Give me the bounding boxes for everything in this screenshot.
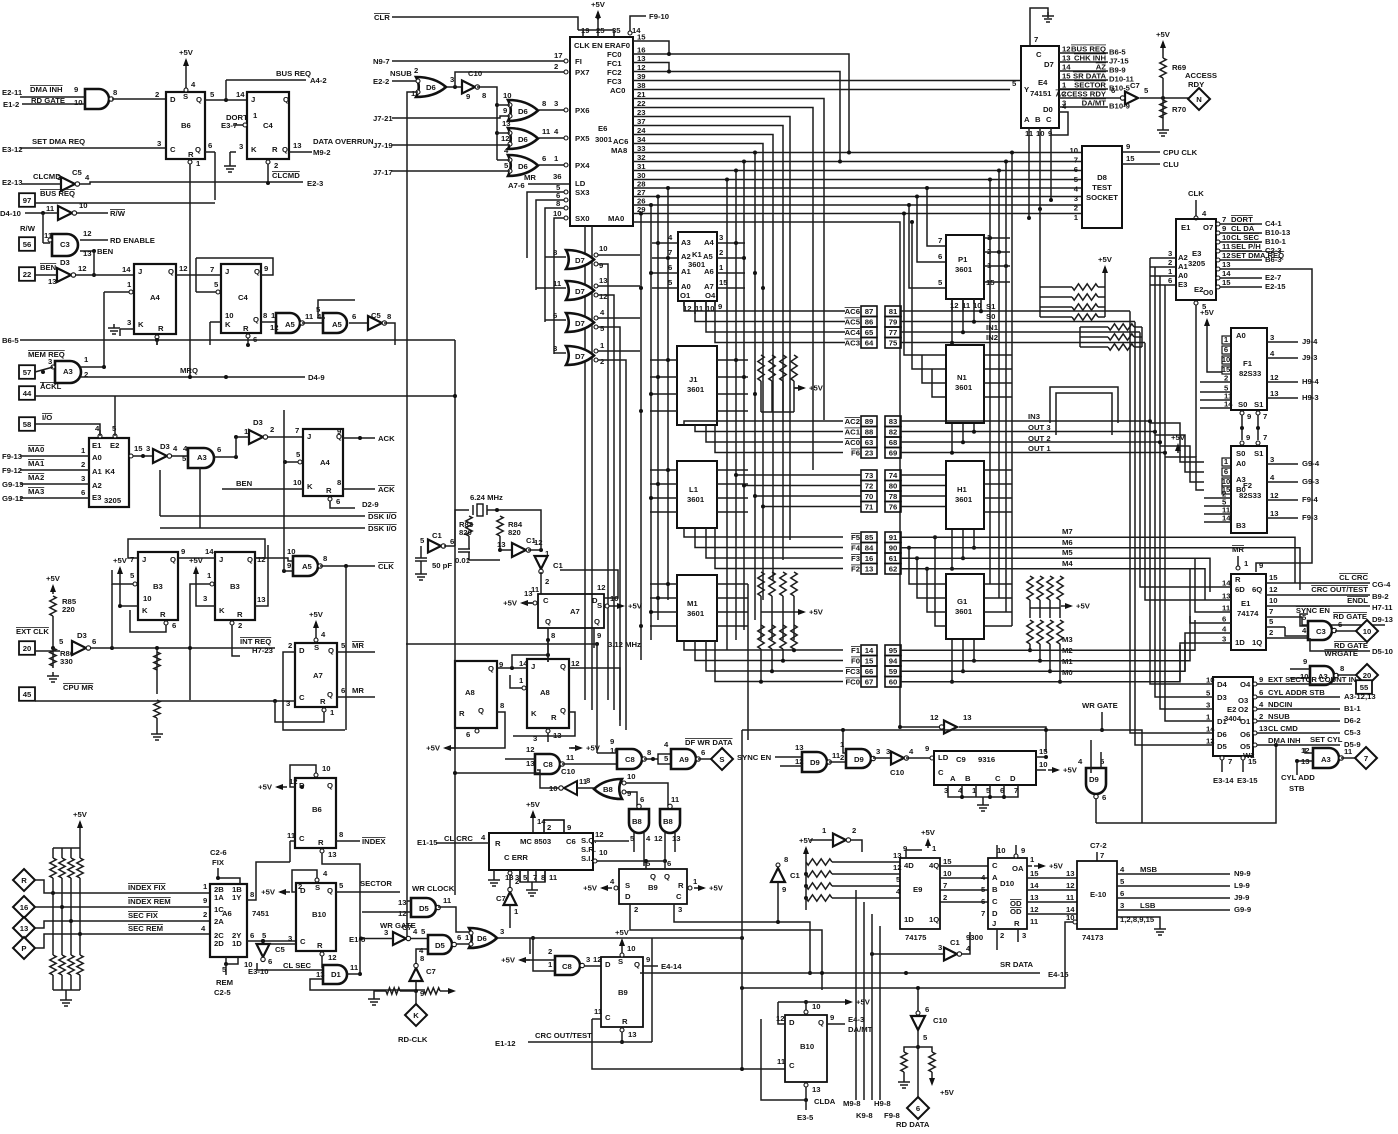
A4 Q to C4 J [176,274,221,276]
svg-text:D6: D6 [518,107,528,116]
svg-text:B10-1: B10-1 [1265,237,1287,246]
svg-text:+5V: +5V [586,744,601,753]
svg-text:INDEX FIX: INDEX FIX [128,883,166,892]
svg-text:82S33: 82S33 [1239,369,1261,378]
svg-text:B3: B3 [1236,521,1246,530]
svg-text:10: 10 [627,944,636,953]
svg-text:1: 1 [1244,559,1249,568]
svg-text:9: 9 [287,561,291,570]
svg-text:12: 12 [398,909,407,918]
gate A5 second [323,313,347,333]
svg-text:2: 2 [554,62,558,71]
svg-text:J: J [138,267,142,276]
svg-text:B: B [965,774,971,783]
svg-text:8: 8 [420,954,425,963]
D6e output row right [530,937,742,939]
gate A9 [671,749,696,769]
svg-text:CLK: CLK [378,562,394,571]
svg-text:3: 3 [1168,249,1172,258]
svg-text:5: 5 [339,881,344,890]
svg-text:F9-13: F9-13 [2,452,22,461]
svg-text:15: 15 [943,857,952,866]
svg-text:5: 5 [981,885,986,894]
svg-text:D6: D6 [477,934,487,943]
flip-flop A7a [295,643,337,707]
C4b Q to A5 gates [261,321,278,323]
IC D8 TEST SOCKET [1082,146,1122,228]
B9b register [601,957,643,1027]
svg-text:E3-5: E3-5 [797,1113,814,1122]
E4 D0 loop [1051,112,1068,135]
svg-text:BUS REQ: BUS REQ [276,69,311,78]
svg-text:CL DA: CL DA [1231,224,1255,233]
svg-text:B6-3: B6-3 [1265,255,1282,264]
svg-text:B1-1: B1-1 [1344,704,1361,713]
svg-text:+5V: +5V [591,0,606,9]
B9a bottom pins [629,904,631,916]
svg-text:10: 10 [812,1002,821,1011]
svg-text:4: 4 [668,233,673,242]
svg-text:+5V: +5V [526,800,541,809]
svg-text:R: R [326,486,332,495]
svg-text:1: 1 [196,159,201,168]
ACK bar output [343,488,375,490]
svg-text:1: 1 [519,676,524,685]
svg-text:4: 4 [1259,700,1264,709]
svg-text:D6-2: D6-2 [1344,716,1361,725]
B10a S loop [315,878,319,882]
svg-text:D7: D7 [1044,60,1054,69]
svg-text:Q: Q [634,960,640,969]
svg-text:10: 10 [1222,355,1231,364]
svg-text:M9-2: M9-2 [313,148,331,157]
D8 outputs CPU CLK CLU [1122,151,1160,153]
svg-text:10: 10 [599,244,608,253]
svg-text:3: 3 [384,928,388,937]
svg-text:2: 2 [1168,258,1172,267]
svg-text:B3: B3 [153,582,163,591]
B3a R [164,621,168,625]
K1 right stubs [717,242,745,244]
svg-text:RD-CLK: RD-CLK [398,1035,428,1044]
svg-text:MA0: MA0 [608,214,624,223]
svg-text:P: P [21,944,26,953]
svg-text:1: 1 [548,960,553,969]
svg-text:10: 10 [74,98,83,107]
svg-text:1: 1 [1074,213,1079,222]
svg-text:2: 2 [81,460,85,469]
svg-text:5: 5 [262,931,267,940]
svg-text:11: 11 [549,873,558,882]
svg-text:D3: D3 [253,418,263,427]
svg-text:C10: C10 [890,768,904,777]
svg-text:10: 10 [943,869,952,878]
svg-text:FC3: FC3 [607,77,622,86]
AC2 rows to OUT rows [901,420,1150,422]
IC D10 9300 [988,858,1027,929]
svg-text:12: 12 [1066,881,1075,890]
flip-flop A8a [455,661,497,728]
svg-text:33: 33 [637,144,646,153]
svg-text:DMA INH: DMA INH [1268,736,1301,745]
gate B8c vertical [660,809,680,833]
svg-text:E3: E3 [92,493,101,502]
svg-text:C: C [170,145,176,154]
svg-text:PX7: PX7 [575,68,590,77]
svg-text:6: 6 [352,312,356,321]
svg-text:1: 1 [1206,713,1211,722]
svg-text:10: 10 [143,594,152,603]
resistor R83 [466,516,472,536]
input diamond R [13,869,35,891]
long vertical x455 [454,340,456,895]
IC E3 3205 [1176,219,1216,300]
svg-text:12: 12 [289,777,298,786]
svg-text:C1: C1 [790,871,801,880]
E3 E2 bottom pin [1194,301,1198,305]
svg-text:3: 3 [876,747,880,756]
svg-text:A1: A1 [1178,262,1189,271]
IC F1 82S33 [1231,328,1267,410]
svg-text:12: 12 [1062,45,1071,54]
N1 bottom pin drops [951,423,953,453]
svg-text:2D: 2D [214,939,224,948]
svg-text:2: 2 [852,826,856,835]
svg-text:13: 13 [524,589,533,598]
svg-text:R: R [188,150,194,159]
svg-text:4: 4 [85,173,90,182]
svg-text:1A: 1A [214,893,224,902]
svg-text:E4: E4 [1038,78,1048,87]
svg-text:10: 10 [1206,676,1215,685]
svg-text:E1: E1 [92,441,102,450]
SX wires down [527,192,564,258]
svg-text:6Q: 6Q [1252,585,1262,594]
svg-text:J9-3: J9-3 [1302,353,1317,362]
svg-text:C5: C5 [275,945,286,954]
CRC line up right of B9b [651,938,653,1042]
svg-text:CL SEC: CL SEC [283,961,311,970]
B6b R down [320,849,324,853]
svg-text:15: 15 [1222,485,1231,494]
svg-text:7: 7 [1100,851,1104,860]
svg-text:D9: D9 [810,758,820,767]
svg-text:A4: A4 [704,238,715,247]
svg-text:D6: D6 [1217,730,1227,739]
K diamond RD-CLK [415,991,417,1004]
svg-text:+5V: +5V [261,888,276,897]
flip-flop C4 [247,92,289,159]
svg-text:EXT CLK: EXT CLK [16,627,49,636]
svg-text:K: K [138,320,144,329]
svg-text:F1: F1 [851,646,861,655]
vertical wires to M9-8 etc [855,890,857,1100]
svg-text:3.12 MHz: 3.12 MHz [608,640,641,649]
svg-text:1: 1 [932,844,937,853]
svg-text:13: 13 [316,970,325,979]
resistor R70 [1160,100,1166,118]
verticals hanging from lower rows [754,153,756,621]
svg-text:C: C [992,861,998,870]
svg-text:3: 3 [554,99,558,108]
svg-text:O4: O4 [1240,680,1251,689]
svg-text:S: S [315,883,320,892]
svg-text:1: 1 [600,341,605,350]
+5V left of F2 [1177,445,1179,453]
wire ext clk to B3 area [111,584,113,648]
svg-text:10: 10 [79,201,88,210]
gate B8a OR [594,779,622,799]
svg-text:K: K [251,145,257,154]
svg-text:12: 12 [501,134,510,143]
center resistor group 2 [758,572,764,596]
svg-text:3601: 3601 [955,265,973,274]
svg-text:5: 5 [421,927,426,936]
svg-text:SEC REM: SEC REM [128,924,163,933]
svg-text:LSB: LSB [1140,901,1156,910]
svg-text:7: 7 [130,555,134,564]
svg-text:AC3: AC3 [845,339,860,348]
svg-text:4: 4 [1270,349,1275,358]
svg-text:H1: H1 [957,485,968,494]
svg-text:+5V: +5V [179,48,194,57]
svg-text:59: 59 [889,667,898,676]
IC E4 74151 [1021,46,1059,128]
svg-text:E3: E3 [1192,249,1201,258]
svg-text:4D: 4D [904,861,914,870]
svg-text:2: 2 [943,893,947,902]
svg-text:L9-9: L9-9 [1234,881,1250,890]
svg-text:8: 8 [500,701,505,710]
resistor R69 [1162,42,1164,50]
svg-text:3205: 3205 [1188,259,1206,268]
svg-text:H9-8: H9-8 [874,1099,891,1108]
svg-text:44: 44 [23,389,32,398]
CLCMD wire to E2-3 [79,182,303,184]
svg-text:C1: C1 [950,938,961,947]
svg-text:4: 4 [600,308,605,317]
svg-text:D: D [605,960,611,969]
A7a Q out MR [337,696,375,698]
svg-text:S1: S1 [1254,400,1264,409]
SX3..SX0 pins [564,190,568,194]
B6 R pin down wire [188,160,192,164]
svg-text:PX4: PX4 [575,161,590,170]
center resistor group 1 [758,355,764,381]
A7b +5V left [522,602,532,604]
svg-text:+5V: +5V [1049,862,1064,871]
svg-text:15: 15 [719,278,728,287]
svg-text:12: 12 [1030,905,1039,914]
svg-text:6: 6 [925,1005,929,1014]
D1 lower input loop [310,979,425,990]
svg-text:74151: 74151 [1030,89,1052,98]
svg-text:32: 32 [637,153,646,162]
svg-text:9: 9 [567,823,571,832]
svg-text:MA0: MA0 [28,445,44,454]
A8b R bottom [546,729,550,733]
svg-text:Q: Q [170,555,176,564]
svg-text:B10-13: B10-13 [1265,228,1290,237]
svg-text:+5V: +5V [426,744,441,753]
svg-text:9: 9 [203,896,207,905]
+5V on A7a S [315,622,317,630]
svg-text:CG-4: CG-4 [1372,580,1391,589]
inverter C5b [368,316,382,330]
svg-text:64: 64 [865,339,874,348]
svg-text:F1: F1 [1243,359,1253,368]
+5V to B6 S [185,60,187,68]
svg-text:4: 4 [413,927,418,936]
svg-text:39: 39 [637,72,646,81]
PROM column right verticals [989,180,991,585]
A5b top input loop [318,300,355,318]
svg-text:13: 13 [628,1030,637,1039]
svg-text:A1: A1 [681,267,692,276]
IC MC8503 C6 [489,833,593,870]
73 rows feed H1 [901,474,946,476]
B10b R bottom [804,1083,808,1087]
svg-text:74173: 74173 [1082,933,1103,942]
svg-text:OUT 2: OUT 2 [1028,434,1051,443]
svg-text:RDY: RDY [1188,80,1204,89]
svg-text:M3: M3 [1062,635,1073,644]
svg-text:E4-14: E4-14 [661,962,682,971]
svg-text:4Q: 4Q [929,861,939,870]
svg-text:Q: Q [283,95,289,104]
svg-text:3: 3 [157,139,161,148]
svg-text:CRC OUT/TEST: CRC OUT/TEST [1311,585,1368,594]
svg-text:C5-3: C5-3 [1344,728,1361,737]
svg-text:B10: B10 [312,910,326,919]
bus row 38 long right [633,89,1010,91]
svg-text:12: 12 [597,583,606,592]
svg-text:74: 74 [889,471,898,480]
svg-text:MR: MR [524,173,536,182]
svg-text:C8: C8 [625,755,636,764]
svg-text:MR: MR [1232,545,1244,554]
svg-text:SET DMA REQ: SET DMA REQ [32,137,85,146]
svg-text:A0: A0 [1236,459,1246,468]
svg-text:3601: 3601 [955,383,973,392]
B10b Q out [827,1023,845,1025]
svg-text:AC6: AC6 [845,307,860,316]
svg-text:6: 6 [250,931,254,940]
svg-text:J: J [992,919,996,928]
svg-text:DF WR DATA: DF WR DATA [685,738,733,747]
svg-text:A5: A5 [332,320,343,329]
svg-text:5: 5 [1012,79,1017,88]
svg-text:9: 9 [337,427,341,436]
svg-text:K: K [531,709,537,718]
svg-text:NDCIN: NDCIN [1268,700,1293,709]
svg-text:1: 1 [330,708,335,717]
svg-text:9: 9 [466,92,470,101]
svg-text:6: 6 [450,537,454,546]
svg-text:10: 10 [1222,233,1231,242]
svg-text:820: 820 [459,528,472,537]
F1 inputs lower [1200,381,1231,383]
pinbox group AC6 row [861,306,877,317]
svg-text:FC1: FC1 [607,59,622,68]
svg-text:L1: L1 [689,485,699,494]
resistor to ground left [400,990,416,992]
svg-text:1: 1 [84,355,89,364]
svg-text:R70: R70 [1172,105,1186,114]
svg-text:6: 6 [1224,467,1228,476]
svg-text:13: 13 [1222,260,1231,269]
svg-text:12: 12 [571,659,580,668]
svg-text:AC0: AC0 [610,86,625,95]
svg-text:6.24 MHz: 6.24 MHz [470,493,503,502]
svg-text:A3: A3 [681,238,691,247]
svg-text:A0: A0 [1178,271,1188,280]
svg-text:6: 6 [1120,889,1124,898]
svg-text:B6: B6 [312,805,322,814]
svg-text:I/O: I/O [42,413,52,422]
svg-text:5: 5 [210,90,215,99]
svg-text:14: 14 [1206,725,1215,734]
svg-text:13: 13 [83,249,92,258]
svg-text:S1: S1 [1254,449,1264,458]
svg-text:3601: 3601 [687,495,705,504]
svg-text:+5V: +5V [628,602,643,611]
svg-text:69: 69 [889,449,898,458]
svg-text:4: 4 [191,80,196,89]
flip-flop C4 second [221,264,261,333]
svg-text:9: 9 [181,547,185,556]
svg-text:K: K [225,320,231,329]
svg-text:Q: Q [594,617,600,626]
inverter C1c up [776,863,780,867]
A4b R down [328,497,332,501]
svg-text:DATA OVERRUN: DATA OVERRUN [313,137,374,146]
verticals feeding resistor rows [1039,209,1041,317]
svg-text:B: B [992,885,998,894]
svg-text:R: R [158,324,164,333]
svg-text:7: 7 [1228,757,1232,766]
gate B8b vertical [629,809,649,833]
svg-text:81: 81 [889,307,898,316]
flip-flop A4 [134,264,176,334]
svg-text:WRGATE: WRGATE [1324,649,1358,658]
E3 outputs [1216,222,1220,226]
svg-text:D: D [170,95,176,104]
MA0 row [633,222,900,727]
gate A3b [188,448,214,468]
flip-flop B10a [296,883,336,951]
SECTOR output [336,891,365,893]
svg-text:5: 5 [664,754,669,763]
svg-text:8: 8 [551,631,556,640]
svg-text:4: 4 [1222,625,1227,634]
svg-text:CLK EN ERA: CLK EN ERA [574,41,621,50]
G1 bottom pin drops [951,639,953,682]
P1/N1 feed verticals [927,188,946,246]
svg-text:37: 37 [637,117,646,126]
svg-text:63: 63 [865,438,874,447]
svg-text:4: 4 [1120,865,1125,874]
svg-text:F9-3: F9-3 [1302,513,1318,522]
gate D6c [508,128,538,149]
ACK output [343,437,375,439]
svg-text:CLCMD: CLCMD [272,171,300,180]
+5V above E6 [597,12,599,20]
svg-text:7: 7 [210,265,214,274]
svg-text:3601: 3601 [687,609,705,618]
svg-text:2: 2 [414,66,418,75]
svg-text:11: 11 [671,795,680,804]
